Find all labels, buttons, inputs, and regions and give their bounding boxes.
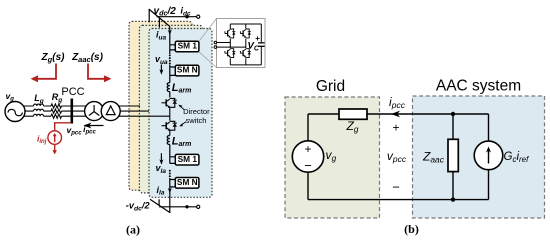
svg-text:−: − xyxy=(304,158,312,173)
director switch IGBT upper xyxy=(162,98,178,120)
director switch IGBT lower xyxy=(162,121,178,135)
DC bus bottom (-vdc/2 node) xyxy=(150,199,198,213)
svg-text:(a): (a) xyxy=(126,223,140,237)
phase-c band (tan) xyxy=(129,21,192,190)
svg-text:Grid: Grid xyxy=(316,78,345,95)
inset capacitor VC xyxy=(258,24,265,65)
submodule SMN (lower) xyxy=(170,177,199,188)
svg-text:switch: switch xyxy=(185,116,206,125)
inductor Larm (lower) xyxy=(167,136,170,157)
red arrow for Zaac xyxy=(88,64,112,83)
idc terminal (top) xyxy=(197,15,200,18)
upper arm wire with i_ua arrow xyxy=(168,27,172,45)
svg-text:AAC system: AAC system xyxy=(436,78,521,95)
voltage source vg (a) xyxy=(5,102,25,122)
label Zg(s) xyxy=(41,52,66,64)
top wire (b) xyxy=(308,114,489,141)
svg-text:SM N: SM N xyxy=(177,65,198,75)
svg-text:−: − xyxy=(392,180,400,195)
red arrow for Zg xyxy=(31,64,57,83)
phase wire junction into director switch xyxy=(169,115,171,117)
phase-a converter region (blue) xyxy=(149,29,212,198)
label v_la with arrow xyxy=(156,153,167,175)
svg-text:+: + xyxy=(255,34,260,43)
inset IGBT Q2 xyxy=(240,29,251,38)
submodule SM1 (lower) xyxy=(170,154,199,165)
impedance Zaac branch xyxy=(448,114,458,200)
transformer (wye-delta) xyxy=(85,102,121,121)
svg-text:+: + xyxy=(304,142,311,156)
svg-text:SM 1: SM 1 xyxy=(178,41,198,51)
three-phase wires xyxy=(22,106,170,116)
inset IGBT Q4 xyxy=(240,49,251,58)
PCC bus bar xyxy=(71,99,74,124)
svg-text:Director: Director xyxy=(183,107,210,116)
svg-text:(b): (b) xyxy=(404,222,419,236)
junction dot top xyxy=(451,112,455,116)
inset IGBT Q1 xyxy=(225,29,236,38)
inset terminals xyxy=(214,41,246,48)
label Director switch with arrows xyxy=(178,105,210,127)
inductor Lg (3 phases) xyxy=(34,104,44,116)
impedance Zg box xyxy=(339,109,367,119)
voltage source vg (b) xyxy=(292,114,323,200)
current source Gc iref xyxy=(474,141,503,200)
inset H-bridge rails xyxy=(230,24,261,65)
inset IGBT Q3 xyxy=(225,49,236,58)
Grid region box (b) xyxy=(285,97,380,218)
AAC system region box (b) xyxy=(413,96,545,218)
svg-text:SM 1: SM 1 xyxy=(178,154,198,164)
idc junction dot (top) xyxy=(185,15,188,18)
label v_ua with arrow xyxy=(155,54,168,75)
submodule SMN (upper) xyxy=(170,65,199,83)
arrow ipcc (b) xyxy=(391,111,400,118)
SM detail callout lines xyxy=(199,19,217,68)
svg-text:SM N: SM N xyxy=(177,177,198,187)
label Zaac(s) xyxy=(71,52,104,64)
svg-text:PCC: PCC xyxy=(61,86,84,98)
DC bus top (vdc/2 node) xyxy=(149,9,198,28)
junction dot bottom xyxy=(451,197,455,201)
bottom wire (b) xyxy=(308,199,489,201)
arrow ipcc xyxy=(84,123,104,129)
resistor Rg (3 phases) xyxy=(51,104,62,118)
chain dots (lower) xyxy=(169,170,171,177)
submodule SM1 (upper) xyxy=(170,41,199,55)
phase-b band (green) xyxy=(139,25,202,193)
chain dots (upper) xyxy=(169,54,171,64)
svg-text:Zg(s): Zg(s) xyxy=(41,52,66,64)
injection source i_inj (red) xyxy=(48,123,71,155)
idc junction dot (bottom) xyxy=(185,205,188,208)
svg-text:+: + xyxy=(392,120,399,134)
inductor Larm (upper) xyxy=(167,83,170,98)
idc terminal (bottom) xyxy=(197,205,200,208)
SM detail inset box xyxy=(217,19,266,68)
lower arm wire with i_la arrow xyxy=(168,187,172,213)
